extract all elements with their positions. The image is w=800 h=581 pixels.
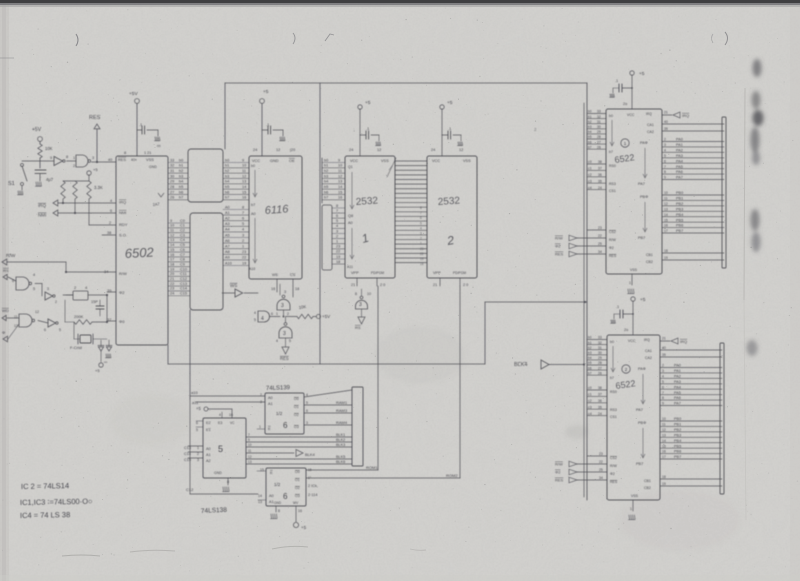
2532-2 VPP PGM bottom pins <box>433 278 468 287</box>
svg-text:b0: b0 <box>251 164 255 168</box>
svg-text:4: 4 <box>336 224 338 228</box>
svg-text:VSS: VSS <box>146 157 154 162</box>
svg-text:PB7: PB7 <box>636 462 643 466</box>
svg-text:12: 12 <box>248 455 252 459</box>
svg-text:2 0: 2 0 <box>463 283 468 287</box>
svg-text:15: 15 <box>338 190 342 194</box>
svg-text:PA6: PA6 <box>676 170 683 174</box>
svg-text:19: 19 <box>336 255 340 259</box>
svg-text:13: 13 <box>258 500 262 504</box>
decoder IC6b 74LS139 half <box>257 468 312 506</box>
svg-text:CS1: CS1 <box>610 415 617 419</box>
VIA bus vertical 1 <box>586 83 588 500</box>
svg-text:10K: 10K <box>298 304 306 310</box>
svg-text:E2: E2 <box>206 421 211 425</box>
RDY wire <box>89 199 116 225</box>
svg-text:2: 2 <box>242 239 244 243</box>
svg-text:CS: CS <box>290 273 296 277</box>
svg-text:b1: b1 <box>324 164 328 168</box>
svg-text:3: 3 <box>284 290 286 294</box>
svg-text:40: 40 <box>664 120 668 124</box>
svg-text:C15: C15 <box>180 292 187 296</box>
svg-text:.1: .1 <box>616 305 619 309</box>
svg-text:38: 38 <box>598 160 602 164</box>
svg-text:A11: A11 <box>347 265 353 269</box>
svg-text:6: 6 <box>664 159 666 163</box>
svg-text:24: 24 <box>598 186 602 190</box>
svg-text:2 0: 2 0 <box>380 283 385 287</box>
svg-text:c2: c2 <box>588 399 592 403</box>
svg-text:IC 2 = 74LS14: IC 2 = 74LS14 <box>21 481 69 491</box>
svg-text:18: 18 <box>336 260 340 264</box>
VIA #1 port A pins PA0-PA7 <box>662 138 724 180</box>
svg-text:PB5: PB5 <box>674 444 681 448</box>
svg-text:29: 29 <box>598 356 602 360</box>
svg-text:+5V: +5V <box>129 91 138 97</box>
svg-text:VCC: VCC <box>350 159 358 163</box>
decoder label 74LS138 <box>201 507 228 515</box>
svg-text:21: 21 <box>351 283 355 287</box>
+5 to decoder VCC <box>196 406 233 418</box>
svg-text:14: 14 <box>170 243 174 247</box>
svg-text:A10: A10 <box>225 261 232 265</box>
svg-text:b0: b0 <box>179 158 183 162</box>
svg-text:6: 6 <box>336 214 338 218</box>
svg-text:24: 24 <box>431 148 435 152</box>
svg-text:22: 22 <box>242 256 246 260</box>
svg-text:4: 4 <box>242 228 244 232</box>
svg-text:11: 11 <box>662 423 666 427</box>
svg-text:12: 12 <box>170 233 174 237</box>
+5 node oscillator <box>95 363 103 373</box>
inverter IC2b <box>42 284 57 305</box>
decoder label 74LS139 <box>266 385 291 392</box>
svg-text:PA7: PA7 <box>638 182 645 186</box>
svg-text:18: 18 <box>295 287 299 291</box>
resistor 200K <box>74 314 108 324</box>
svg-text:40×: 40× <box>131 158 137 162</box>
svg-text:BLK4: BLK4 <box>305 452 316 457</box>
svg-text:A7: A7 <box>225 245 230 249</box>
svg-text:A1: A1 <box>268 402 273 406</box>
svg-text:1: 1 <box>629 281 631 285</box>
svg-text:b2: b2 <box>588 346 592 350</box>
+5V supply node (reset pull-up) <box>32 127 42 144</box>
2532-1 +5 and cap C4 <box>358 100 381 156</box>
svg-text:PAΦ: PAΦ <box>638 367 646 371</box>
BLK4 buffer <box>514 360 585 369</box>
svg-text:6: 6 <box>271 312 273 316</box>
svg-text:4: 4 <box>110 199 112 203</box>
svg-text:PA7: PA7 <box>674 402 681 406</box>
6502 address pins A0-A15 <box>168 219 190 296</box>
svg-text:10: 10 <box>367 292 371 296</box>
svg-text:R/W: R/W <box>609 238 617 242</box>
svg-text:PB3: PB3 <box>676 207 683 211</box>
svg-text:36: 36 <box>598 399 602 403</box>
svg-text:IRQ: IRQ <box>682 113 689 118</box>
svg-text:BLK3: BLK3 <box>336 443 345 447</box>
svg-text:5: 5 <box>420 221 422 225</box>
svg-text:PA0: PA0 <box>676 138 683 142</box>
svg-text:6: 6 <box>242 217 244 221</box>
svg-text:21: 21 <box>662 337 666 341</box>
svg-text:GND: GND <box>274 501 282 505</box>
svg-text:40: 40 <box>108 158 112 162</box>
VIA #1 port connector <box>722 117 726 268</box>
svg-text:PA6: PA6 <box>674 396 681 400</box>
svg-text:PA7: PA7 <box>636 408 643 412</box>
svg-text:VSS: VSS <box>463 159 471 163</box>
svg-text:8: 8 <box>355 292 357 296</box>
VIA #2 port connector <box>720 343 724 494</box>
data/address wires between EPROMs <box>395 161 427 263</box>
svg-text:7: 7 <box>664 165 666 169</box>
svg-text:30: 30 <box>598 351 602 355</box>
svg-text:O0: O0 <box>294 397 299 401</box>
svg-text:32: 32 <box>597 115 601 119</box>
nand gate IC1b <box>12 273 42 291</box>
wire 6502 bottom to WS net <box>167 345 169 364</box>
svg-text:16: 16 <box>662 450 666 454</box>
6502 data pins D0-D7 <box>168 158 188 200</box>
svg-text:4: 4 <box>261 316 264 322</box>
svg-text:b3: b3 <box>588 351 592 355</box>
svg-text:PD/PGM: PD/PGM <box>371 271 384 275</box>
svg-text:13: 13 <box>248 460 252 464</box>
svg-text:12: 12 <box>664 202 668 206</box>
svg-text:b0: b0 <box>610 340 614 344</box>
svg-text:CS2: CS2 <box>609 230 616 234</box>
svg-text:IRQ: IRQ <box>680 339 687 344</box>
VIA #1 port B pins PB0-PB7 <box>662 191 724 233</box>
svg-text:3: 3 <box>420 232 422 236</box>
svg-text:35: 35 <box>598 179 602 183</box>
svg-text:C11: C11 <box>180 272 187 276</box>
svg-text:IRQ: IRQ <box>646 112 652 116</box>
2532-2 pin numbers left edge <box>420 206 424 266</box>
svg-text:b5: b5 <box>588 361 592 365</box>
svg-text:CB1: CB1 <box>646 253 653 257</box>
svg-text:9: 9 <box>338 158 340 162</box>
svg-text:2: 2 <box>109 221 111 225</box>
decoder IC5 74LS138 <box>184 418 246 485</box>
svg-text:8: 8 <box>420 206 422 210</box>
svg-text:8: 8 <box>124 151 126 155</box>
IC list notes <box>20 481 93 520</box>
svg-text:b6: b6 <box>179 190 183 194</box>
stray mark 2 <box>534 127 537 132</box>
svg-text:A10: A10 <box>249 267 255 271</box>
svg-text:PA5: PA5 <box>676 165 683 169</box>
diodes D1 D2 <box>98 340 112 364</box>
svg-text:A0: A0 <box>269 494 274 498</box>
svg-text:28: 28 <box>597 135 601 139</box>
svg-text:S.O.: S.O. <box>119 233 127 238</box>
svg-text:7: 7 <box>662 391 664 395</box>
wires a10 a11 to decoder <box>190 390 265 429</box>
svg-text:4: 4 <box>219 413 221 417</box>
svg-text:21: 21 <box>433 283 437 287</box>
svg-text:1/2: 1/2 <box>274 482 281 487</box>
svg-text:a11: a11 <box>192 400 199 405</box>
svg-text:34: 34 <box>598 250 602 254</box>
svg-text:33: 33 <box>598 336 602 340</box>
2532-2 +5 and cap C5 <box>440 100 463 156</box>
svg-text:17: 17 <box>662 455 666 459</box>
svg-text:23: 23 <box>420 247 424 251</box>
svg-text:14: 14 <box>338 185 342 189</box>
svg-text:39: 39 <box>662 353 666 357</box>
svg-text:16: 16 <box>242 196 246 200</box>
svg-text:Φ0: Φ0 <box>119 319 125 324</box>
svg-text:9: 9 <box>664 176 666 180</box>
svg-text:25: 25 <box>598 242 602 246</box>
svg-text:IC4 = 74 LS 38: IC4 = 74 LS 38 <box>20 510 70 520</box>
svg-text:10: 10 <box>170 224 174 228</box>
svg-text:+5: +5 <box>196 406 201 411</box>
svg-text:NMI: NMI <box>119 210 126 215</box>
svg-text:RES: RES <box>609 254 617 258</box>
svg-text:14: 14 <box>664 213 668 217</box>
svg-text:PA7: PA7 <box>676 176 683 180</box>
crystal F-Crist <box>70 322 107 350</box>
svg-text:34: 34 <box>104 269 109 274</box>
svg-text:PBΦ: PBΦ <box>638 421 646 425</box>
VIA #2 register select pins <box>587 386 607 416</box>
svg-text:10: 10 <box>662 417 666 421</box>
svg-text:BLK2: BLK2 <box>336 438 345 442</box>
svg-text:E3: E3 <box>218 421 222 425</box>
svg-text:23: 23 <box>170 287 174 291</box>
decoder IC6a 74LS139 half <box>259 393 304 434</box>
svg-text:16: 16 <box>271 287 275 291</box>
svg-text:ROM1: ROM1 <box>366 465 378 470</box>
svg-text:RAM4: RAM4 <box>336 420 348 425</box>
svg-text:RDY: RDY <box>119 222 128 227</box>
svg-text:b4: b4 <box>179 180 183 184</box>
svg-text:1: 1 <box>336 240 338 244</box>
VIA #2 port B pins PB0-PB7 <box>660 417 722 459</box>
svg-text:A1: A1 <box>269 500 274 504</box>
VIA #2 CB1 CB2 pins <box>660 475 722 486</box>
wire bus to 6116 connector <box>224 83 226 149</box>
svg-text:nn: nn <box>157 144 161 148</box>
svg-text:25: 25 <box>599 468 603 472</box>
svg-text:16: 16 <box>338 196 342 200</box>
svg-text:4μ7: 4μ7 <box>46 177 54 182</box>
svg-text:13: 13 <box>338 180 342 184</box>
address bus connector box <box>190 213 223 399</box>
svg-text:15: 15 <box>664 218 668 222</box>
svg-text:b7: b7 <box>324 196 328 200</box>
wire nand output to 6502 pin 40 <box>92 158 117 163</box>
wire WS horizontal <box>168 363 485 365</box>
svg-text:8: 8 <box>66 155 68 159</box>
svg-text:18: 18 <box>664 249 668 253</box>
svg-text:OE: OE <box>289 158 295 163</box>
svg-text:b4: b4 <box>588 130 592 134</box>
svg-text:A5: A5 <box>225 233 230 237</box>
svg-text:RES: RES <box>89 115 101 121</box>
VIA #2 CA1 CA2 pins <box>660 346 722 357</box>
svg-text:RS3: RS3 <box>609 182 616 186</box>
svg-text:VSS: VSS <box>381 159 389 163</box>
svg-text:11: 11 <box>664 197 668 201</box>
svg-text:VSS: VSS <box>631 494 639 498</box>
svg-text:1 21: 1 21 <box>144 151 151 155</box>
svg-text:12: 12 <box>276 148 280 152</box>
svg-text:PB4: PB4 <box>676 213 683 217</box>
svg-text:11: 11 <box>14 315 18 319</box>
svg-text:16: 16 <box>229 413 233 417</box>
wire to VIA bus <box>485 301 587 364</box>
svg-text:VSS: VSS <box>630 268 638 272</box>
svg-text:RS3: RS3 <box>610 408 617 412</box>
svg-text:RAM3: RAM3 <box>336 408 348 413</box>
svg-text:21: 21 <box>170 277 174 281</box>
svg-text:2532: 2532 <box>437 195 460 208</box>
svg-text:C9: C9 <box>180 262 185 266</box>
svg-text:Φ: Φ <box>2 330 5 335</box>
svg-text:15: 15 <box>242 190 246 194</box>
svg-text:17: 17 <box>170 258 174 262</box>
svg-text:b2: b2 <box>324 169 328 173</box>
svg-text:A9: A9 <box>225 256 230 260</box>
svg-text:c3: c3 <box>588 179 592 183</box>
svg-text:b5: b5 <box>324 185 328 189</box>
svg-text:b6: b6 <box>588 140 592 144</box>
svg-text:5: 5 <box>664 154 666 158</box>
svg-text:10: 10 <box>242 164 246 168</box>
inverter IC2a (schmitt) <box>40 155 68 166</box>
svg-text:CA1: CA1 <box>647 123 654 127</box>
capacitor 15p <box>91 300 104 316</box>
svg-text:A3: A3 <box>225 222 230 226</box>
wire bus to 2532 connector <box>319 83 321 364</box>
svg-text:+5: +5 <box>639 71 645 77</box>
svg-text:24: 24 <box>253 148 257 152</box>
svg-text:RS: RS <box>355 325 361 330</box>
svg-text:3: 3 <box>664 143 666 147</box>
svg-text:3: 3 <box>283 331 286 337</box>
svg-text:6116: 6116 <box>264 203 289 217</box>
svg-text:PA5: PA5 <box>674 391 681 395</box>
svg-text:29: 29 <box>170 180 174 184</box>
svg-text:13: 13 <box>242 180 246 184</box>
svg-text:PB0: PB0 <box>676 191 683 195</box>
svg-text:7: 7 <box>248 433 250 437</box>
data bus connector box <box>188 149 223 202</box>
svg-text:PB7: PB7 <box>638 236 645 240</box>
svg-text:13: 13 <box>662 433 666 437</box>
svg-text:RES: RES <box>118 157 126 162</box>
svg-text:4: 4 <box>664 148 666 152</box>
svg-text:b7: b7 <box>610 376 614 380</box>
svg-text:c2: c2 <box>588 173 592 177</box>
svg-text:22: 22 <box>170 282 174 286</box>
capacitor C1 4u7 <box>35 170 54 186</box>
svg-text:A2: A2 <box>225 217 230 221</box>
IRQ input arrow <box>38 199 116 208</box>
svg-text:.1: .1 <box>615 79 618 83</box>
svg-text:16: 16 <box>298 509 302 513</box>
svg-text:3: 3 <box>242 233 244 237</box>
svg-text:3: 3 <box>197 458 199 462</box>
svg-text:PB5: PB5 <box>676 218 683 222</box>
svg-text:GND: GND <box>149 165 157 169</box>
svg-text:8: 8 <box>242 205 244 209</box>
svg-text:+5: +5 <box>640 297 646 303</box>
svg-text:6: 6 <box>12 279 14 283</box>
svg-text:2: 2 <box>662 364 664 368</box>
svg-text:8: 8 <box>664 170 666 174</box>
input arrow RS <box>3 268 16 281</box>
svg-text:CA2: CA2 <box>645 356 652 360</box>
svg-text:11: 11 <box>338 169 342 173</box>
NMI input arrow <box>38 199 116 218</box>
svg-text:21: 21 <box>664 111 668 115</box>
svg-text:74LS139: 74LS139 <box>266 385 291 392</box>
svg-text:1: 1 <box>420 242 422 246</box>
svg-text:C6: C6 <box>180 248 185 252</box>
VIA #1 register select pins <box>587 160 606 190</box>
svg-text:1: 1 <box>197 446 199 450</box>
svg-text:20: 20 <box>170 272 174 276</box>
svg-text:b4: b4 <box>225 180 229 184</box>
VIA #1 IRQ output <box>662 111 689 119</box>
svg-text:RS: RS <box>3 268 9 273</box>
svg-text:RES: RES <box>555 252 564 257</box>
svg-text:5: 5 <box>336 219 338 223</box>
svg-text:C12: C12 <box>180 277 187 281</box>
svg-text:5: 5 <box>289 339 291 343</box>
nand gate IC1c <box>14 310 39 328</box>
svg-text:A6: A6 <box>225 239 230 243</box>
svg-text:15: 15 <box>260 468 264 472</box>
svg-text:2o: 2o <box>623 102 627 106</box>
svg-text:PB1: PB1 <box>676 197 683 201</box>
VIA #1 control pins <box>555 226 606 257</box>
svg-text:PA3: PA3 <box>676 154 683 158</box>
VIA U5 6522 #1 <box>606 109 662 274</box>
wire phi0 to 6502 <box>107 320 116 322</box>
svg-text:35: 35 <box>598 405 602 409</box>
svg-text:C14: C14 <box>180 287 187 291</box>
svg-text:VCC: VCC <box>627 113 635 117</box>
svg-text:A1: A1 <box>225 211 230 215</box>
svg-text:5: 5 <box>242 222 244 226</box>
svg-text:R/W: R/W <box>555 462 563 467</box>
svg-text:VCC: VCC <box>252 159 260 163</box>
svg-text:BLK1: BLK1 <box>336 433 345 437</box>
svg-text:7: 7 <box>420 211 422 215</box>
svg-text:CA2: CA2 <box>647 130 654 134</box>
svg-text:12: 12 <box>459 148 463 152</box>
svg-text:PB2: PB2 <box>676 202 683 206</box>
svg-text:38: 38 <box>598 386 602 390</box>
svg-text:6: 6 <box>196 421 198 425</box>
VIA #1 VSS ground <box>628 274 635 294</box>
svg-text:28: 28 <box>598 361 602 365</box>
wire node to switch <box>22 158 40 168</box>
svg-text:A1: A1 <box>206 453 211 457</box>
svg-text:C0: C0 <box>180 219 185 223</box>
resistor 10K pullup <box>286 304 331 319</box>
and gate IC4a <box>254 311 280 322</box>
svg-text:b6: b6 <box>588 366 592 370</box>
svg-text:b5: b5 <box>179 185 183 189</box>
